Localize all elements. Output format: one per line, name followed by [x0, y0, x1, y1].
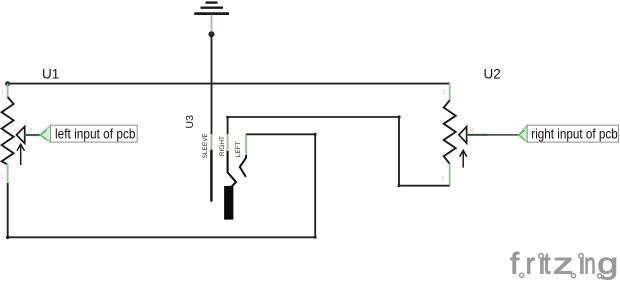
right contact: [228, 151, 236, 188]
svg-text:1: 1: [1, 90, 4, 96]
svg-text:3: 3: [1, 175, 4, 181]
svg-text:U2: U2: [484, 67, 501, 82]
net flag "left input of pcb": [40, 125, 137, 142]
pin SLEEVE: [210, 134, 212, 149]
pin RIGHT: [227, 134, 229, 151]
ground: [194, 3, 229, 33]
svg-text:z: z: [553, 248, 574, 281]
node bend left-pin corner: [314, 133, 317, 136]
plug body: [224, 186, 233, 220]
wire U1 wiper to left flag: [25, 134, 40, 136]
fritzing logo: [510, 248, 618, 281]
svg-text:U3: U3: [184, 115, 196, 129]
node bend right lower corner: [398, 184, 401, 187]
wire jack RIGHT to U2 bottom: [228, 117, 450, 186]
svg-text:f: f: [510, 248, 520, 281]
svg-text:2: 2: [472, 128, 475, 134]
svg-text:3: 3: [443, 90, 446, 96]
node bend right-pin corner: [226, 116, 229, 119]
svg-text:SLEEVE: SLEEVE: [202, 132, 209, 158]
node bend bottom-right corner: [314, 236, 317, 239]
svg-text:t: t: [544, 248, 552, 281]
audio jack U3: [184, 115, 246, 220]
pin LEFT: [245, 134, 247, 155]
svg-text:1: 1: [442, 176, 445, 182]
wire top rail U1 to U2: [8, 83, 450, 85]
node bend right corner: [397, 115, 400, 118]
svg-text:right input of pcb: right input of pcb: [531, 126, 618, 142]
wire U2 wiper to right flag (green pin part): [467, 134, 488, 136]
svg-text:RIGHT: RIGHT: [219, 136, 226, 156]
svg-text:U1: U1: [42, 66, 59, 81]
svg-text:n: n: [584, 248, 596, 281]
svg-text:LEFT: LEFT: [235, 141, 242, 157]
wire ground to sleeve: [211, 34, 213, 134]
svg-text:r: r: [526, 248, 536, 281]
svg-text:left input of pcb: left input of pcb: [55, 126, 136, 142]
node ground-junction: [208, 31, 214, 37]
wire jack LEFT to U1 bottom: [8, 134, 316, 237]
potentiometer U2: [444, 84, 467, 186]
sleeve contact: [210, 150, 212, 202]
wire U2 wiper to right flag (black part): [467, 134, 519, 136]
node U1 top junction: [5, 81, 10, 86]
node bend bottom-left corner: [6, 236, 10, 240]
svg-text:2: 2: [30, 128, 33, 134]
net flag "right input of pcb": [519, 125, 619, 142]
potentiometer U1: [2, 84, 25, 184]
left contact: [240, 155, 246, 177]
